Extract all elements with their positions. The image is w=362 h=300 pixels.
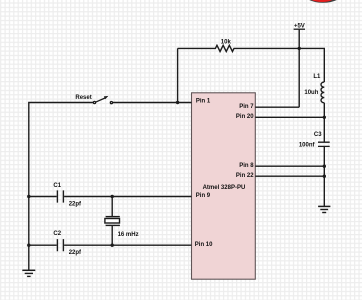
- svg-text:Pin 9: Pin 9: [196, 193, 211, 199]
- svg-text:22pf: 22pf: [69, 201, 82, 207]
- svg-text:22pf: 22pf: [69, 250, 82, 256]
- svg-text:Pin 22: Pin 22: [236, 173, 254, 179]
- svg-text:100nf: 100nf: [299, 142, 316, 148]
- svg-text:+5V: +5V: [294, 24, 305, 30]
- svg-text:C1: C1: [53, 183, 61, 189]
- svg-text:Atmel 328P-PU: Atmel 328P-PU: [203, 185, 246, 191]
- svg-text:Pin 20: Pin 20: [236, 114, 254, 120]
- svg-text:C3: C3: [314, 132, 322, 138]
- svg-text:10uh: 10uh: [304, 90, 318, 96]
- svg-text:Reset: Reset: [75, 95, 91, 101]
- svg-text:16 mHz: 16 mHz: [118, 232, 139, 238]
- svg-text:Pin 8: Pin 8: [239, 163, 254, 169]
- svg-text:Pin 10: Pin 10: [195, 242, 213, 248]
- svg-text:Pin 1: Pin 1: [196, 99, 211, 105]
- svg-text:C2: C2: [53, 231, 61, 237]
- svg-text:10k: 10k: [221, 39, 232, 45]
- svg-text:L1: L1: [313, 74, 321, 80]
- svg-text:Pin 7: Pin 7: [239, 104, 254, 110]
